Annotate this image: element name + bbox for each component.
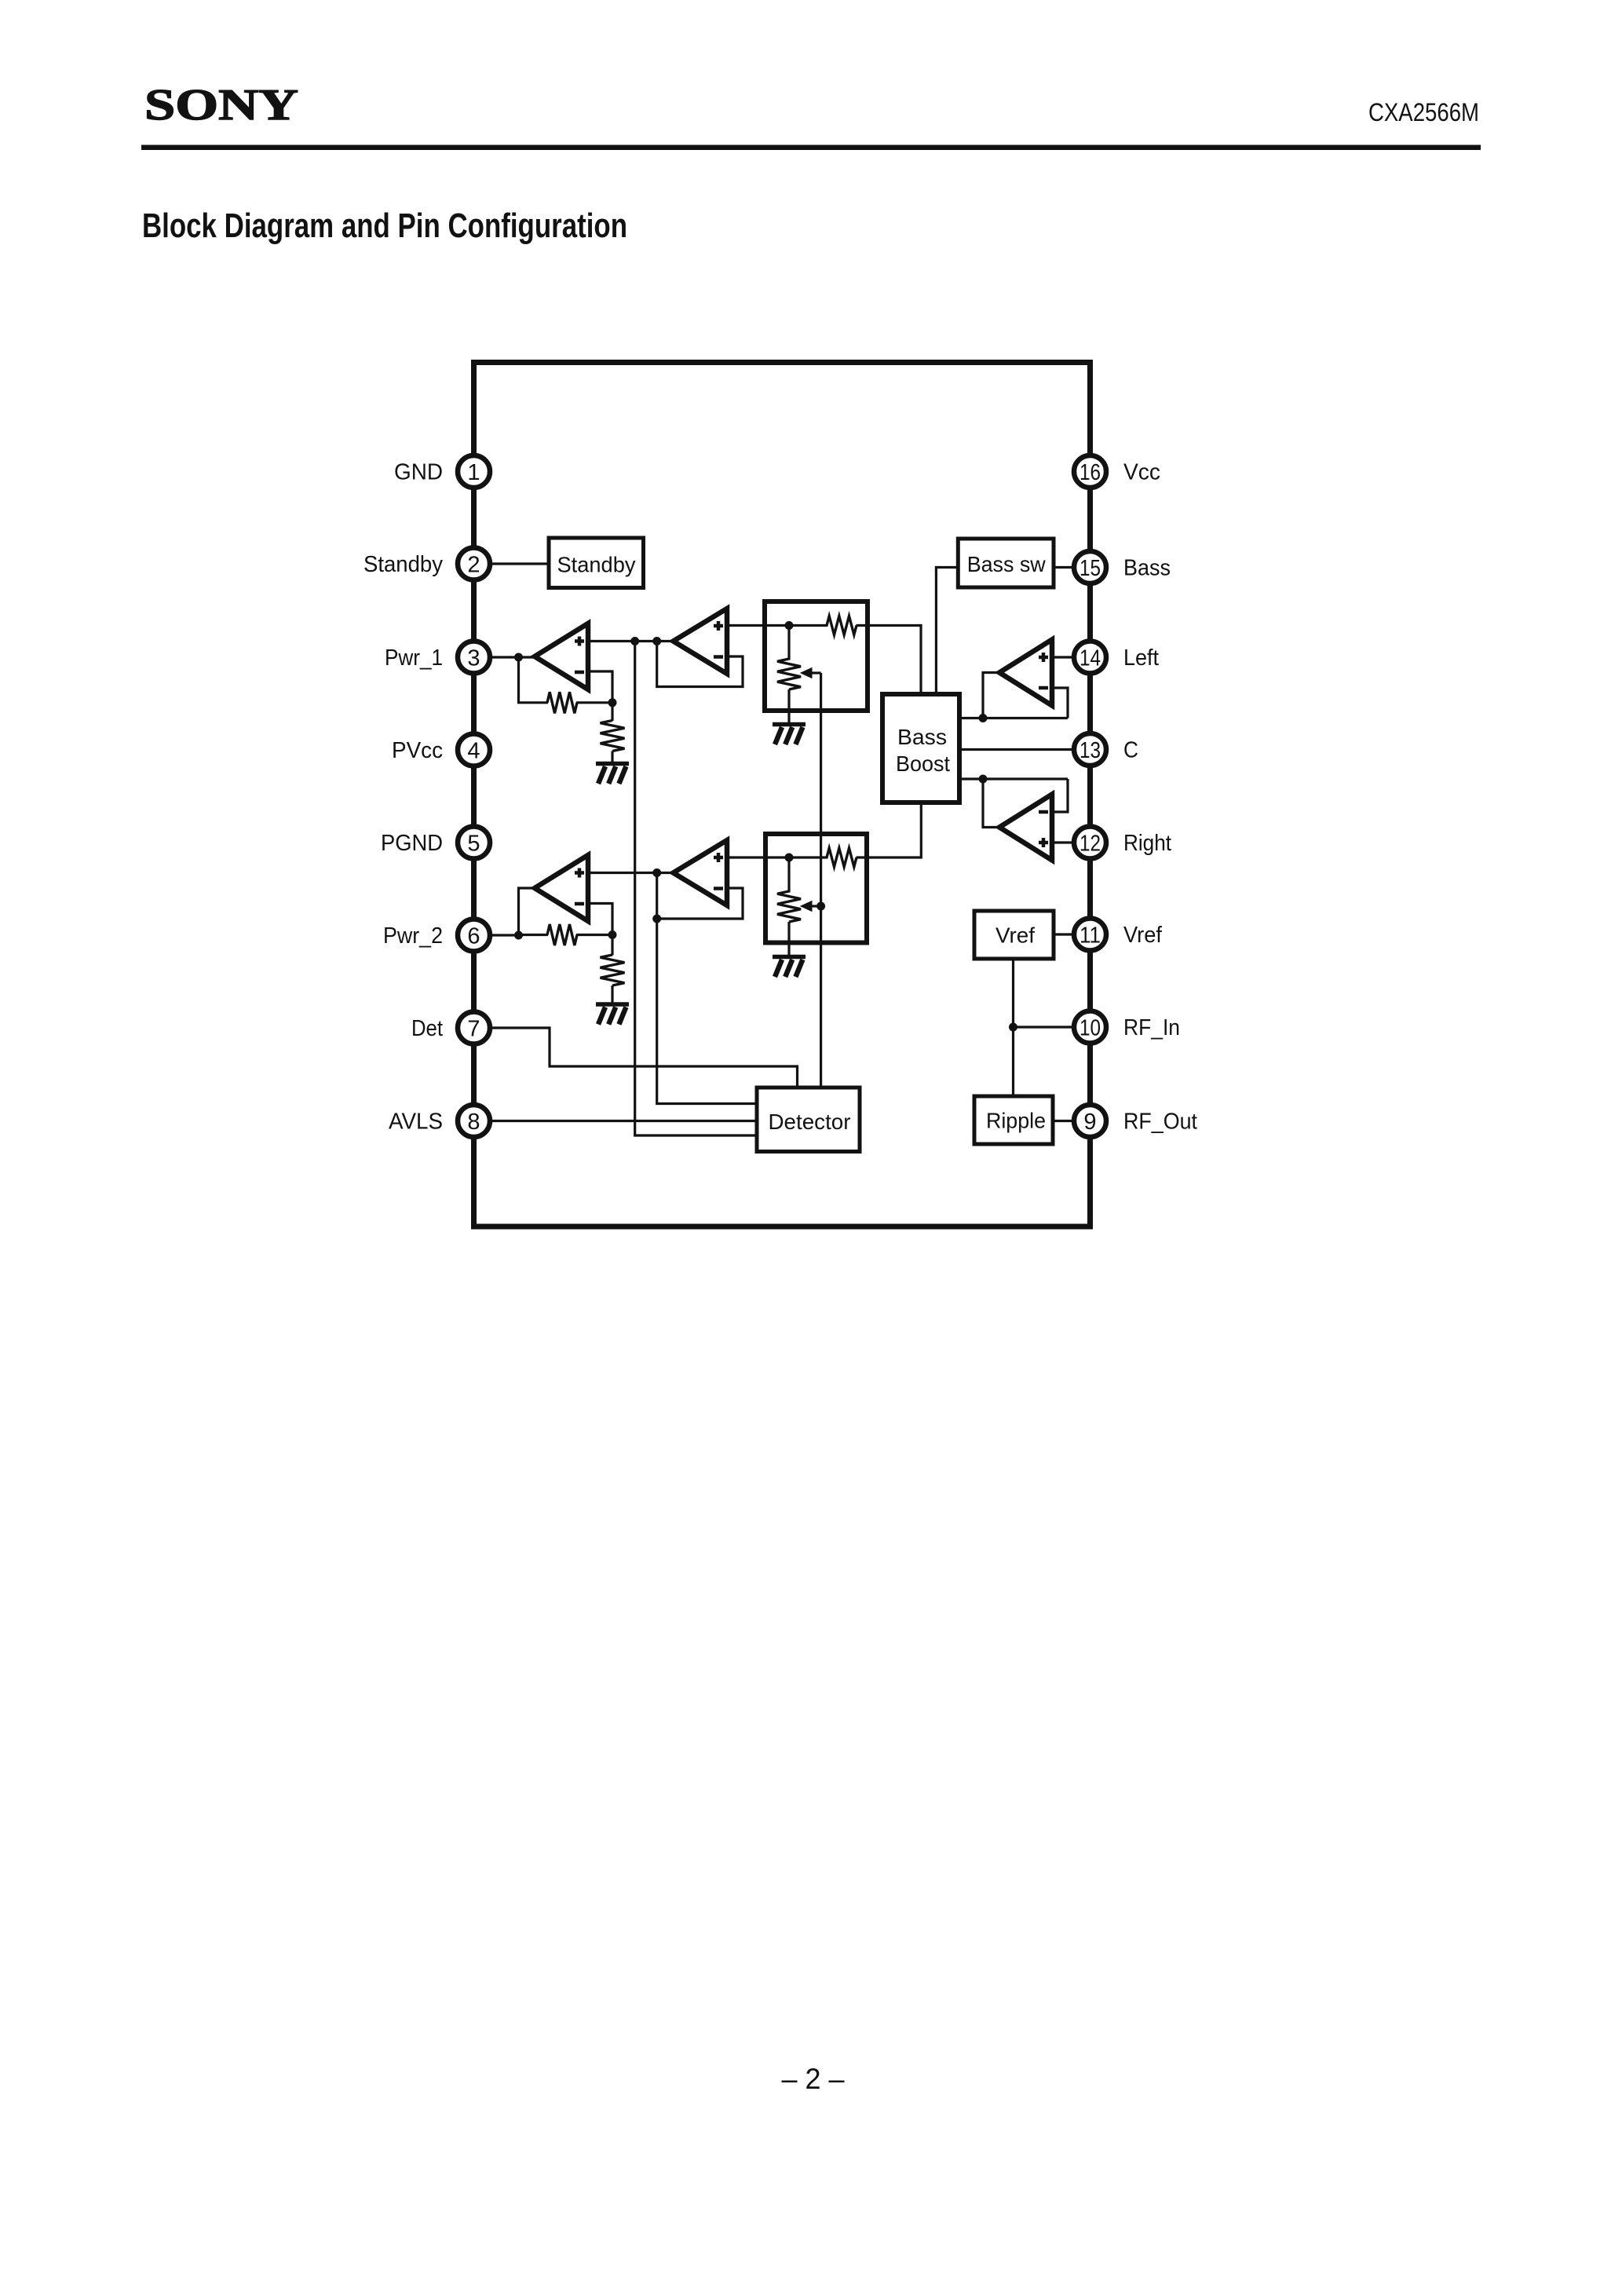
wire pin6 to power amp A2 output (474, 888, 535, 935)
svg-text:11: 11 (1080, 923, 1101, 949)
ground (VR1) (773, 725, 806, 745)
wire buffer A5 - feedback (1052, 688, 1068, 718)
pin 6 (458, 919, 490, 952)
ground (A1 gain network) (596, 764, 629, 784)
node A4 output junction (652, 868, 661, 877)
svg-text:3: 3 (467, 646, 480, 671)
node A6 output junction (979, 775, 988, 784)
block Vref (974, 911, 1054, 959)
op-amp A4 (preamp 2) (674, 840, 728, 905)
potentiometer VR2 (777, 891, 801, 922)
resistor R4 (VR2 series) (827, 848, 857, 867)
wire wiper detector line (820, 673, 822, 1088)
block Detector (757, 1088, 860, 1152)
svg-text:Ripple: Ripple (986, 1109, 1046, 1133)
svg-text:C: C (1123, 738, 1138, 763)
pin 3 (458, 642, 490, 674)
wire preamp A3 + input to VR1 (727, 624, 789, 627)
svg-text:Standby: Standby (363, 552, 443, 577)
wire preamp A4 feedback loop (657, 888, 743, 919)
wire buffer A6 output leg (983, 779, 999, 828)
svg-text:Vcc: Vcc (1123, 460, 1160, 485)
wire pin2 to Standby block (474, 562, 550, 565)
wire R6 bottom lead to ground (611, 985, 613, 1004)
pin 11 (1074, 919, 1106, 951)
block Ripple (974, 1096, 1053, 1144)
wire A2 + input to preamp A4 output (588, 872, 674, 874)
wire Bass Boost right out (959, 777, 1068, 780)
wire VR2 pot bottom lead to ground (787, 922, 790, 956)
pin 4 (458, 734, 490, 766)
node A1 output junction (514, 653, 523, 662)
pin 15 (1074, 551, 1106, 583)
node VR1 top junction (785, 621, 794, 630)
svg-text:Det: Det (411, 1016, 443, 1041)
svg-text:Bass: Bass (1123, 556, 1171, 581)
node wiper line junction (816, 902, 825, 911)
node A1 feedback junction (608, 698, 617, 707)
node A1 + / detector junction (630, 637, 639, 645)
wire Vref block to pin11 (1054, 933, 1090, 935)
resistor R1 (A1 feedback) (547, 692, 577, 713)
svg-text:13: 13 (1080, 738, 1101, 763)
svg-text:SONY: SONY (144, 81, 298, 130)
svg-text:10: 10 (1080, 1016, 1101, 1041)
node A2 feedback junction (608, 930, 617, 939)
svg-text:1: 1 (467, 460, 480, 485)
wire detector sense line (right channel) (657, 873, 757, 1104)
pin 9 (1074, 1105, 1106, 1137)
op-amp A2 (power amp 2) (535, 855, 588, 921)
svg-text:AVLS: AVLS (389, 1110, 443, 1135)
svg-text:Boost: Boost (896, 751, 950, 776)
wire A1 feedback left leg (519, 657, 549, 703)
svg-text:9: 9 (1083, 1110, 1096, 1135)
pin 12 (1074, 827, 1106, 859)
svg-text:5: 5 (467, 832, 480, 857)
svg-text:14: 14 (1080, 646, 1101, 671)
svg-text:6: 6 (467, 924, 480, 949)
VR2 wiper arrow (801, 901, 812, 912)
svg-text:RF_Out: RF_Out (1123, 1110, 1197, 1135)
svg-text:RF_In: RF_In (1123, 1015, 1180, 1040)
svg-text:12: 12 (1080, 832, 1101, 857)
IC package outline (474, 363, 1090, 1227)
svg-text:CXA2566M: CXA2566M (1368, 98, 1479, 126)
wire preamp A4 + input to VR2 (727, 856, 789, 858)
wire Bass Boost left out (959, 717, 1068, 719)
wire Bass Boost to VR2 (867, 803, 921, 857)
pin 13 (1074, 733, 1106, 766)
svg-text:4: 4 (467, 739, 480, 764)
wire Bass sw to Bass Boost (936, 568, 958, 695)
pin 10 (1074, 1011, 1106, 1044)
svg-text:PGND: PGND (381, 831, 443, 856)
volume block VR2 (right channel) (765, 834, 867, 943)
svg-text:Right: Right (1123, 831, 1171, 856)
wire pin7 Det to Detector block (474, 1028, 798, 1088)
volume block VR1 (left channel) (765, 601, 868, 711)
resistor R2 (A1 to ground) (601, 721, 625, 751)
wire R5 left lead (519, 934, 549, 936)
wire R3 leads (789, 624, 868, 627)
wire VR2 pot top lead (787, 857, 790, 893)
wire R1 right lead (576, 701, 612, 704)
wire R4 leads (789, 856, 867, 858)
wire pin8 AVLS to Detector block (474, 1120, 758, 1122)
svg-text:16: 16 (1080, 460, 1101, 485)
pin 8 (458, 1105, 490, 1137)
node A3 output junction (652, 637, 661, 645)
op-amp A6 (Right input buffer) (999, 795, 1052, 861)
svg-text:Left: Left (1123, 645, 1159, 671)
wire VR1 pot top lead (787, 626, 790, 660)
wire preamp A3 feedback loop (657, 642, 743, 687)
wire Bass Boost to pin13 (959, 748, 1090, 751)
op-amp A5 (Left input buffer) (999, 640, 1052, 706)
svg-text:Vref: Vref (995, 923, 1035, 948)
op-amp A3 (preamp 1) (674, 609, 728, 674)
svg-text:Standby: Standby (557, 553, 636, 577)
node A4 feedback junction (652, 915, 661, 923)
pin 16 (1074, 455, 1106, 488)
svg-text:PVcc: PVcc (392, 738, 443, 763)
pin 2 (458, 548, 490, 580)
node VR2 top junction (785, 854, 794, 862)
ground (VR2) (773, 957, 806, 978)
wire Bass sw to pin15 (1054, 566, 1090, 569)
svg-text:15: 15 (1080, 556, 1101, 581)
wire R2 bottom lead to ground (611, 751, 613, 764)
wire Vref to Ripple (1012, 959, 1014, 1096)
svg-text:8: 8 (467, 1110, 480, 1135)
block Bass sw (958, 539, 1054, 587)
pin 5 (458, 827, 490, 859)
VR1 wiper arrow (801, 668, 812, 678)
node A2 output junction (514, 931, 523, 940)
wire RF_In tap to pin10 (1014, 1026, 1090, 1028)
op-amp A1 (power amp 1) (535, 623, 588, 689)
wire A1 + input to preamp A3 output (588, 640, 674, 642)
wire VR2 wiper to detector line (811, 905, 821, 907)
block Bass Boost (882, 694, 959, 803)
block Standby (549, 538, 644, 588)
svg-text:GND: GND (394, 460, 443, 485)
resistor R3 (VR1 series) (827, 616, 857, 635)
ground (A2 gain network) (596, 1004, 629, 1025)
svg-text:Pwr_2: Pwr_2 (383, 923, 443, 949)
pin 14 (1074, 642, 1106, 674)
wire R2 top lead (611, 703, 613, 721)
svg-text:Detector: Detector (769, 1110, 851, 1134)
potentiometer VR1 (777, 659, 801, 689)
svg-text:Bass sw: Bass sw (967, 552, 1047, 576)
wire pin3 to power amp A1 output (474, 656, 535, 658)
wire buffer A5 output leg (983, 673, 999, 718)
node A5 output junction (979, 714, 988, 722)
wire buffer A6 - feedback (1052, 779, 1068, 812)
wire VR1 pot bottom lead to ground (787, 689, 790, 724)
svg-text:– 2 –: – 2 – (782, 2063, 845, 2095)
wire VR1 to Bass Boost (868, 626, 921, 695)
pin 1 (458, 455, 490, 488)
wire pin14 Left to buffer A5 + (1052, 656, 1090, 658)
wire A1 - input to feedback node (588, 671, 612, 703)
header rule (141, 145, 1481, 151)
svg-text:Pwr_1: Pwr_1 (385, 645, 443, 671)
wire R5 right lead (576, 934, 612, 936)
resistor R5 (A2 feedback) (547, 924, 577, 945)
svg-text:7: 7 (467, 1017, 480, 1042)
wire detector sense line (left channel) (635, 642, 757, 1136)
wire A2 - input to feedback node (588, 904, 612, 935)
svg-text:Bass: Bass (897, 725, 947, 749)
svg-text:Block Diagram and Pin Configur: Block Diagram and Pin Configuration (142, 207, 627, 245)
wire R6 top lead (611, 935, 613, 956)
wire VR1 wiper to detector line (811, 671, 821, 674)
pin 7 (458, 1012, 490, 1044)
svg-text:Vref: Vref (1123, 923, 1163, 948)
svg-text:2: 2 (467, 553, 480, 578)
wire pin12 Right to buffer A6 + (1052, 841, 1090, 843)
wire Ripple block to pin9 (1053, 1120, 1090, 1122)
resistor R6 (A2 to ground) (601, 955, 625, 985)
node RF_In junction (1009, 1023, 1017, 1032)
